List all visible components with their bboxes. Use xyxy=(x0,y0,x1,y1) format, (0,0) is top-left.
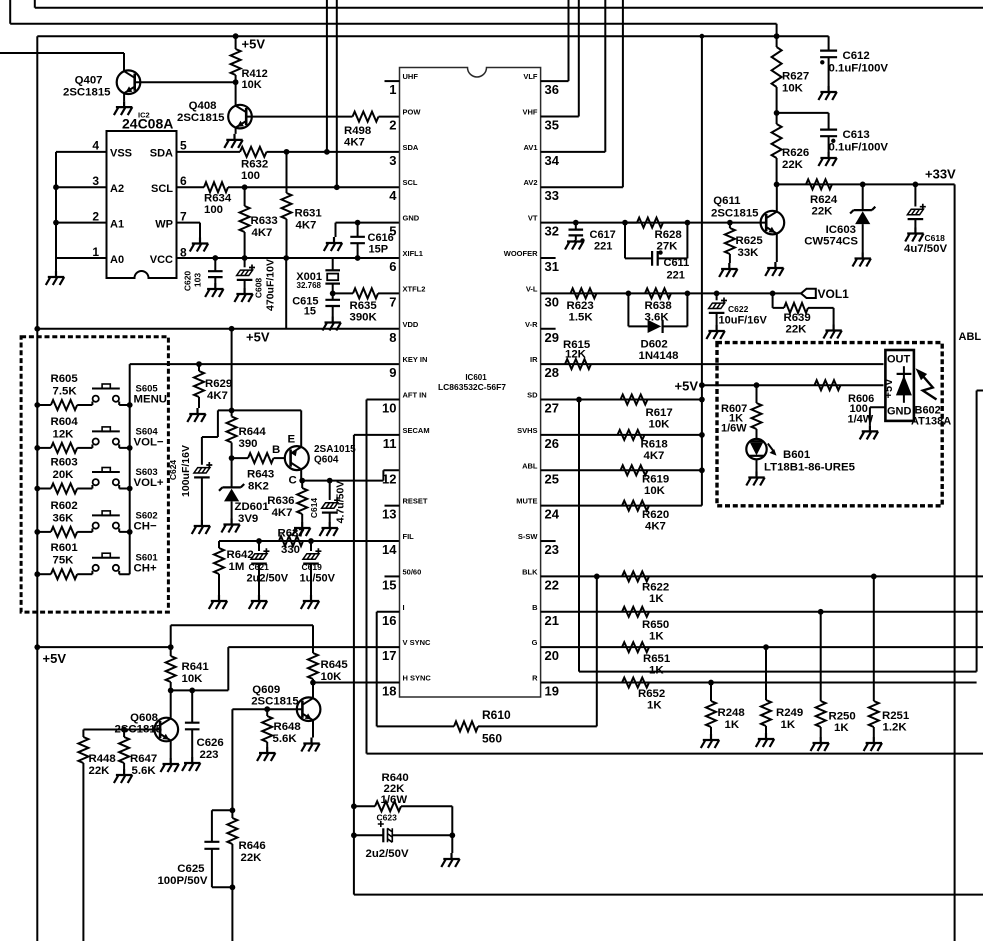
svg-text:100: 100 xyxy=(241,170,260,182)
svg-text:RESET: RESET xyxy=(403,497,428,506)
svg-text:VHF: VHF xyxy=(523,107,538,116)
wire right edge connector box xyxy=(977,391,983,672)
svg-text:4: 4 xyxy=(92,139,99,153)
svg-text:R633: R633 xyxy=(251,215,278,227)
svg-text:4K7: 4K7 xyxy=(207,390,228,402)
svg-text:18: 18 xyxy=(382,684,396,699)
capacitor C608 electrolytic xyxy=(244,258,246,267)
svg-text:UHF: UHF xyxy=(403,72,419,81)
resistor R650 xyxy=(622,607,649,617)
svg-text:AV2: AV2 xyxy=(523,178,537,187)
node R639 xyxy=(770,290,776,296)
svg-text:H SYNC: H SYNC xyxy=(403,674,432,683)
svg-text:36K: 36K xyxy=(53,512,75,524)
svg-text:VLF: VLF xyxy=(523,72,538,81)
svg-text:VT: VT xyxy=(528,214,538,223)
svg-text:CW574CS: CW574CS xyxy=(804,236,858,248)
ground WP xyxy=(190,238,208,252)
wire R639 path xyxy=(773,293,784,308)
svg-text:100: 100 xyxy=(204,204,223,216)
keypad box S601-S605 (dashed) xyxy=(21,337,168,612)
node crystal / C615 / XTFL2 xyxy=(330,291,336,297)
svg-text:R498: R498 xyxy=(344,125,371,137)
resistor R605 xyxy=(34,402,40,408)
svg-text:1N4148: 1N4148 xyxy=(639,350,679,362)
svg-text:SD: SD xyxy=(527,391,538,400)
connector VOL1 tag xyxy=(801,289,816,298)
svg-text:AV1: AV1 xyxy=(523,143,537,152)
svg-text:AFT IN: AFT IN xyxy=(403,391,427,400)
wire Q608 collector xyxy=(170,690,172,718)
svg-text:4K7: 4K7 xyxy=(644,450,665,462)
node SCL riser xyxy=(334,184,340,190)
wire Q604 collector xyxy=(301,469,302,481)
svg-text:22: 22 xyxy=(545,577,559,592)
node C619 xyxy=(308,538,314,544)
ground IC603 xyxy=(853,253,871,267)
diode D602 1N4148 loop xyxy=(628,293,647,326)
resistor R633 pullup xyxy=(244,187,246,206)
svg-text:13: 13 xyxy=(382,507,396,522)
wire G row pin20 xyxy=(541,646,983,648)
ground Q408 xyxy=(224,134,242,148)
svg-text:31: 31 xyxy=(545,259,559,274)
svg-text:1K: 1K xyxy=(834,722,849,734)
node SD dropper xyxy=(576,397,582,403)
resistor R412 xyxy=(235,36,237,49)
dot C617 xyxy=(580,238,584,242)
svg-text:R248: R248 xyxy=(718,707,745,719)
svg-text:22K: 22K xyxy=(782,159,804,171)
wire SD net to right connector xyxy=(579,400,977,672)
svg-text:VOL1: VOL1 xyxy=(818,287,850,301)
svg-text:25: 25 xyxy=(545,471,559,486)
svg-text:Q407: Q407 xyxy=(75,75,103,87)
svg-text:8: 8 xyxy=(389,330,396,345)
svg-text:SCL: SCL xyxy=(403,178,418,187)
svg-text:20K: 20K xyxy=(53,469,75,481)
transistor Q407 xyxy=(117,70,141,94)
wire KEY IN row pin9 xyxy=(130,363,400,365)
wire AFT IN pin10 route xyxy=(367,400,983,754)
svg-text:17: 17 xyxy=(382,648,396,663)
ground R647 xyxy=(114,769,132,783)
wire SCL row right xyxy=(228,186,400,188)
svg-text:9: 9 xyxy=(389,365,396,380)
svg-text:R631: R631 xyxy=(295,208,323,220)
node R644 / R643 / ZD601 xyxy=(229,455,235,461)
svg-text:390: 390 xyxy=(239,438,258,450)
svg-text:AT138A: AT138A xyxy=(911,416,951,428)
ground C621 xyxy=(249,595,267,609)
svg-text:0.1uF/100V: 0.1uF/100V xyxy=(829,63,889,75)
svg-text:Q608: Q608 xyxy=(130,712,158,724)
svg-text:7.5K: 7.5K xyxy=(53,386,78,398)
svg-text:R617: R617 xyxy=(646,407,673,419)
wire Q407 base to R412 xyxy=(135,81,236,83)
node C616 bottom xyxy=(355,255,361,261)
svg-text:ZD601: ZD601 xyxy=(235,501,270,513)
resistor R603 xyxy=(34,486,40,492)
resistor R627 xyxy=(776,36,778,47)
ground R625 xyxy=(719,263,737,277)
svg-text:POW: POW xyxy=(403,107,422,116)
svg-text:103: 103 xyxy=(193,273,203,287)
pin 1 stub xyxy=(385,80,400,82)
svg-text:5.6K: 5.6K xyxy=(273,733,298,745)
svg-text:C623: C623 xyxy=(377,813,398,823)
svg-text:LT18B1-86-URE5: LT18B1-86-URE5 xyxy=(764,462,856,474)
node C626 top xyxy=(189,688,195,694)
wire C624 jog xyxy=(202,410,232,464)
node +5V rail / R412 xyxy=(233,33,239,39)
svg-text:B601: B601 xyxy=(783,449,811,461)
svg-text:IC603: IC603 xyxy=(826,224,856,236)
svg-text:15: 15 xyxy=(382,577,396,592)
svg-text:R642: R642 xyxy=(227,549,254,561)
svg-text:36: 36 xyxy=(545,82,559,97)
svg-text:2SC1815: 2SC1815 xyxy=(251,696,299,708)
svg-text:10K: 10K xyxy=(649,419,671,431)
resistor R610 xyxy=(377,725,454,727)
svg-text:+5V: +5V xyxy=(883,378,895,399)
node keypad bus row 3 xyxy=(127,486,133,492)
wire Q611 emitter xyxy=(776,234,778,262)
svg-text:R643: R643 xyxy=(247,469,274,481)
svg-text:V SYNC: V SYNC xyxy=(403,638,432,647)
svg-text:30: 30 xyxy=(545,294,559,309)
svg-text:E: E xyxy=(288,434,296,446)
svg-text:32.768: 32.768 xyxy=(297,281,322,290)
ground R249 xyxy=(756,733,774,747)
ground ZD601 xyxy=(221,519,239,533)
svg-text:C626: C626 xyxy=(197,737,224,749)
svg-text:1.5K: 1.5K xyxy=(569,312,594,324)
ground C608 xyxy=(234,288,252,302)
wire Q408 collector xyxy=(235,82,237,105)
node R626 top / C613 xyxy=(774,110,780,116)
svg-text:KEY IN: KEY IN xyxy=(403,355,428,364)
svg-text:SVHS: SVHS xyxy=(517,426,537,435)
svg-text:R601: R601 xyxy=(51,542,79,554)
ground C612 xyxy=(818,86,836,100)
switch S603 VOL+ xyxy=(91,485,93,489)
wire SECAM pin11 route xyxy=(354,435,983,895)
svg-text:5: 5 xyxy=(389,224,396,239)
svg-text:A2: A2 xyxy=(110,183,124,195)
svg-text:1: 1 xyxy=(389,82,396,97)
svg-text:R603: R603 xyxy=(51,457,78,469)
wire SDA riser to tuner xyxy=(326,0,328,152)
wire SCL row pin4 xyxy=(177,186,205,188)
svg-text:C: C xyxy=(289,475,297,487)
svg-text:19: 19 xyxy=(545,684,559,699)
svg-text:1/6W: 1/6W xyxy=(381,794,408,806)
wire +5V top rail xyxy=(37,35,828,37)
svg-text:R632: R632 xyxy=(241,159,268,171)
svg-text:2: 2 xyxy=(92,210,99,224)
svg-text:1K: 1K xyxy=(647,700,662,712)
svg-text:R618: R618 xyxy=(641,439,668,451)
wire SDA row right xyxy=(267,151,400,153)
resistor R448 xyxy=(82,730,84,738)
resistor R622 xyxy=(622,571,649,581)
node R250 dropper xyxy=(818,609,824,615)
wire Q609 emitter xyxy=(312,721,314,738)
svg-text:IR: IR xyxy=(530,355,538,364)
svg-text:LC863532C-56F7: LC863532C-56F7 xyxy=(438,382,506,392)
svg-text:1: 1 xyxy=(92,245,99,259)
dot C612 xyxy=(820,60,824,64)
svg-text:C612: C612 xyxy=(843,50,870,62)
capacitor C624 electrolytic xyxy=(206,462,212,468)
ground B601 xyxy=(746,472,764,486)
node R640 tap xyxy=(351,803,357,809)
svg-text:R636: R636 xyxy=(267,495,294,507)
svg-text:10K: 10K xyxy=(782,83,804,95)
node +5V vertical bottom xyxy=(34,644,40,650)
svg-text:1K: 1K xyxy=(649,593,664,605)
svg-text:28: 28 xyxy=(545,365,559,380)
svg-text:R249: R249 xyxy=(776,707,803,719)
node R645 bottom / Q609 collector xyxy=(310,680,316,686)
capacitor C618 electrolytic xyxy=(914,184,916,206)
svg-text:G: G xyxy=(532,638,538,647)
wire SD row pin27 xyxy=(541,399,702,401)
svg-text:Q408: Q408 xyxy=(189,100,217,112)
resistor R640 xyxy=(354,805,375,807)
svg-text:CH+: CH+ xyxy=(134,563,157,575)
svg-text:CH−: CH− xyxy=(134,520,157,532)
ground C619 xyxy=(301,595,319,609)
svg-text:4.7u/50V: 4.7u/50V xyxy=(335,481,347,524)
ground Q407 xyxy=(114,101,132,115)
capacitor C621 electrolytic xyxy=(258,541,260,551)
svg-text:4K7: 4K7 xyxy=(344,137,365,149)
svg-text:12K: 12K xyxy=(565,349,587,361)
svg-text:C618: C618 xyxy=(925,233,946,243)
svg-text:ABL I: ABL I xyxy=(959,331,983,343)
svg-text:XIFL1: XIFL1 xyxy=(403,249,423,258)
svg-text:4K7: 4K7 xyxy=(252,227,273,239)
svg-text:R624: R624 xyxy=(810,194,838,206)
ground R251 xyxy=(864,737,882,751)
svg-text:R605: R605 xyxy=(51,373,79,385)
svg-text:C613: C613 xyxy=(843,129,870,141)
svg-text:MUTE: MUTE xyxy=(516,497,537,506)
svg-text:R251: R251 xyxy=(882,710,910,722)
resistor R624 xyxy=(806,179,832,189)
svg-text:+33V: +33V xyxy=(925,167,956,182)
svg-text:R620: R620 xyxy=(642,509,669,521)
svg-text:R637: R637 xyxy=(278,528,305,540)
svg-text:0.1uF/100V: 0.1uF/100V xyxy=(829,142,889,154)
node Q604 collector row xyxy=(299,478,305,484)
resistor R639 xyxy=(784,303,808,313)
node R607 xyxy=(754,382,760,388)
resistor R618 xyxy=(618,430,645,440)
resistor R641 xyxy=(170,647,172,656)
svg-text:1/6W: 1/6W xyxy=(721,423,747,435)
wire SDA row pin3 xyxy=(177,151,241,153)
svg-text:R634: R634 xyxy=(204,193,232,205)
svg-text:BLK: BLK xyxy=(522,567,538,576)
svg-text:4: 4 xyxy=(389,188,397,203)
resistor R602 xyxy=(34,529,40,535)
svg-text:2SC1815: 2SC1815 xyxy=(711,208,759,220)
wire VCC-XIFL1 row xyxy=(177,257,400,259)
svg-text:SCL: SCL xyxy=(151,183,173,195)
wire SCL riser to tuner xyxy=(336,0,338,187)
capacitor C617 xyxy=(575,223,577,230)
wire H SYNC row pin18 xyxy=(313,682,400,684)
node A1 bus xyxy=(53,220,59,226)
svg-text:3V9: 3V9 xyxy=(238,513,258,525)
svg-text:3: 3 xyxy=(389,153,396,168)
svg-text:22K: 22K xyxy=(241,852,263,864)
ground Q608 xyxy=(161,758,179,772)
wire +5V row into IR box xyxy=(702,384,884,386)
svg-text:10: 10 xyxy=(382,401,396,416)
wire MUTE row pin24 xyxy=(541,505,702,507)
wire pin36 VLF xyxy=(541,0,569,81)
ground R640/C623 xyxy=(441,853,459,867)
ground R248 xyxy=(701,734,719,748)
wire pin33 AV2 xyxy=(541,0,623,187)
svg-text:34: 34 xyxy=(545,153,560,168)
svg-text:1K: 1K xyxy=(725,719,740,731)
svg-text:R647: R647 xyxy=(130,753,157,765)
svg-text:R652: R652 xyxy=(638,688,665,700)
svg-text:R644: R644 xyxy=(239,426,267,438)
svg-text:SDA: SDA xyxy=(150,148,173,160)
ground R250 xyxy=(811,737,829,751)
wire Q408 base / pin2 POW row xyxy=(246,116,352,118)
wire VDD +5V row pin8 xyxy=(37,328,399,330)
node IC603 xyxy=(860,182,866,188)
svg-text:R650: R650 xyxy=(642,619,669,631)
svg-text:VDD: VDD xyxy=(403,320,419,329)
zener ZD601 xyxy=(231,458,233,487)
resistor R648 xyxy=(266,709,268,716)
IC U-IC801 LC863532C-56F7 box xyxy=(400,68,541,698)
svg-text:1.2K: 1.2K xyxy=(883,722,908,734)
svg-text:4K7: 4K7 xyxy=(645,521,666,533)
ground R629 xyxy=(187,408,205,422)
svg-text:Q609: Q609 xyxy=(252,684,280,696)
resistor R604 xyxy=(34,445,40,451)
svg-text:WP: WP xyxy=(155,219,173,231)
wire IC2 left bus xyxy=(56,152,107,258)
ground R648 xyxy=(257,747,275,761)
svg-text:R625: R625 xyxy=(736,235,764,247)
node R638 left / D602 xyxy=(626,290,632,296)
ground C618 xyxy=(905,228,923,242)
wire Q609 base row xyxy=(232,709,302,810)
svg-text:R645: R645 xyxy=(321,659,349,671)
transistor Q609 xyxy=(297,697,321,721)
resistor R631 pullup xyxy=(286,152,288,193)
ground C613 xyxy=(818,152,836,166)
svg-text:R619: R619 xyxy=(642,474,669,486)
svg-text:4u7/50V: 4u7/50V xyxy=(904,243,947,255)
resistor R601 xyxy=(34,571,40,577)
resistor R607 xyxy=(756,385,758,403)
resistor R637 xyxy=(279,536,303,546)
svg-text:330: 330 xyxy=(281,544,300,556)
capacitor C626 xyxy=(191,690,193,722)
resistor R625 xyxy=(727,220,733,226)
wire Q608 emitter to ground xyxy=(170,741,172,758)
svg-text:4K7: 4K7 xyxy=(296,220,317,232)
svg-text:R639: R639 xyxy=(784,312,811,324)
node C620 xyxy=(212,255,218,261)
resistor R615 xyxy=(565,359,591,369)
node SDA / R631 xyxy=(284,149,290,155)
resistor R248 xyxy=(710,683,712,701)
svg-text:2SC1815: 2SC1815 xyxy=(63,87,111,99)
svg-text:8K2: 8K2 xyxy=(248,481,269,493)
svg-text:50/60: 50/60 xyxy=(403,567,422,576)
resistor R642 xyxy=(218,541,220,548)
ground pin5 GND xyxy=(324,237,342,251)
transistor Q408 xyxy=(228,105,252,129)
node R638 right / D602 xyxy=(685,290,691,296)
node SCL / R633 xyxy=(242,184,248,190)
capacitor C611 loop xyxy=(625,223,652,259)
resistor R651 xyxy=(622,642,649,652)
node +5V bus / box feed xyxy=(699,382,705,388)
ground C617 xyxy=(565,240,583,250)
ground C614 xyxy=(320,522,338,536)
svg-text:C621: C621 xyxy=(249,562,270,572)
wire C623 ground drop xyxy=(451,835,453,853)
capacitor C612 xyxy=(828,36,830,50)
node +5V keypad circuit drop xyxy=(229,326,235,332)
svg-text:100P/50V: 100P/50V xyxy=(157,875,207,887)
ground R636 xyxy=(292,522,310,536)
svg-text:GND: GND xyxy=(887,406,912,418)
svg-text:2SC1815: 2SC1815 xyxy=(177,112,225,124)
ground C626 xyxy=(182,757,200,771)
pin 15 stub xyxy=(385,575,400,577)
wire top rail 1 xyxy=(35,0,983,8)
resistor R629 xyxy=(198,364,200,371)
LED B601 xyxy=(746,439,766,459)
wire bottom drop xyxy=(231,887,233,941)
node R412 / Q407 base / Q408 collector xyxy=(233,79,239,85)
switch S604 VOL− xyxy=(91,444,93,448)
svg-text:21: 21 xyxy=(545,613,559,628)
svg-text:24C08A: 24C08A xyxy=(122,116,173,132)
svg-text:XTFL2: XTFL2 xyxy=(403,284,426,293)
svg-text:SDA: SDA xyxy=(403,143,419,152)
svg-text:ABL: ABL xyxy=(522,461,538,470)
svg-text:A1: A1 xyxy=(110,219,124,231)
node C623 left tap xyxy=(351,832,357,838)
resistor R620 xyxy=(622,501,649,511)
node R631 / +5V drop xyxy=(283,255,289,261)
svg-text:14: 14 xyxy=(382,542,397,557)
svg-text:R651: R651 xyxy=(643,653,671,665)
svg-text:15P: 15P xyxy=(369,244,389,256)
svg-text:OUT: OUT xyxy=(887,354,911,366)
ground R639 xyxy=(823,325,841,339)
svg-text:5.6K: 5.6K xyxy=(132,765,157,777)
svg-text:S-SW: S-SW xyxy=(518,532,539,541)
svg-text:V-L: V-L xyxy=(526,284,538,293)
wire +5V drop to VDD row xyxy=(285,258,287,329)
